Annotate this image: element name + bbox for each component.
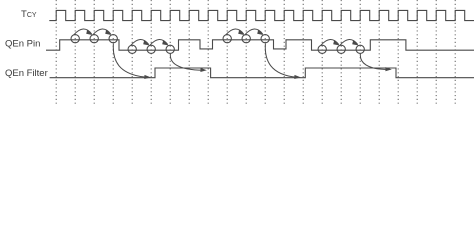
long arrow 4: 3rd low sample to filter fall bbox=[360, 54, 391, 71]
TCY clock waveform bbox=[49, 10, 474, 20]
arc group4 b bbox=[340, 39, 359, 45]
sample-time dotted grid lines bbox=[56, 0, 455, 106]
svg-text:QEn Pin: QEn Pin bbox=[5, 39, 40, 50]
sample circles group 1 (high) bbox=[71, 35, 117, 43]
long arrow 1: 3rd high sample to filter rise bbox=[113, 44, 151, 80]
arc group1 a bbox=[74, 29, 93, 35]
arc group1 b bbox=[93, 29, 112, 35]
QEn Pin waveform bbox=[46, 40, 474, 50]
long arrow 2: 3rd low sample to filter fall bbox=[170, 54, 206, 72]
arc group3 a bbox=[226, 29, 245, 35]
svg-text:QEn Filter: QEn Filter bbox=[5, 68, 48, 79]
sample circles group 2 (low) bbox=[128, 45, 174, 53]
arc group2 a bbox=[131, 39, 150, 45]
arc group3 b bbox=[245, 29, 264, 35]
QEn Filter waveform bbox=[50, 68, 474, 78]
sample circles group 3 (high) bbox=[223, 35, 269, 43]
sample circles group 4 (low) bbox=[318, 45, 364, 53]
arc group4 a bbox=[321, 39, 340, 45]
svg-text:TCY: TCY bbox=[21, 9, 37, 20]
arc group2 b bbox=[150, 39, 169, 45]
long arrow 3: 3rd high sample to filter rise bbox=[265, 44, 301, 80]
